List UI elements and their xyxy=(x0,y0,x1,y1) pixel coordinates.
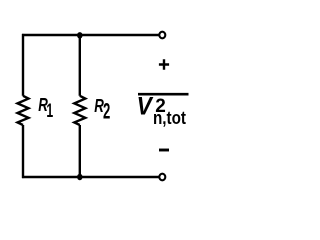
resistor R2 xyxy=(74,96,85,125)
junction dot bottom xyxy=(77,174,83,180)
wire middle vertical upper lead xyxy=(79,35,81,96)
minus sign xyxy=(159,149,169,152)
wire left vertical upper lead xyxy=(22,34,24,96)
svg-text:n,tot: n,tot xyxy=(153,108,186,128)
wire top horizontal xyxy=(22,34,160,36)
resistor R1 xyxy=(18,96,29,125)
terminal top-right xyxy=(159,32,165,39)
wire middle vertical lower lead xyxy=(79,125,81,177)
svg-text:V: V xyxy=(137,93,154,121)
terminal bottom-right xyxy=(159,174,165,181)
svg-text:1: 1 xyxy=(46,101,53,122)
node label V2n,tot overline xyxy=(138,93,189,96)
plus sign xyxy=(159,59,169,70)
wire bottom horizontal xyxy=(22,176,160,178)
junction dot top xyxy=(77,32,83,38)
svg-text:2: 2 xyxy=(103,99,110,124)
wire left vertical lower lead xyxy=(22,125,24,178)
